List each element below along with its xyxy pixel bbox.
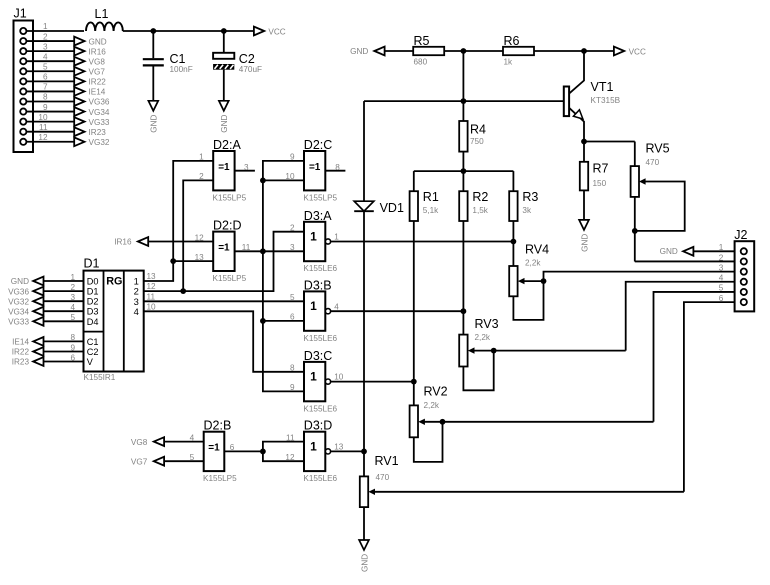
svg-text:=1: =1	[218, 162, 230, 173]
svg-text:VG36: VG36	[89, 98, 110, 107]
node dot R4 bottom	[461, 168, 467, 174]
svg-text:VG7: VG7	[89, 67, 106, 76]
connector J1 pin 1 circle	[20, 28, 26, 34]
wire J1 pin 7 to net IE14	[26, 90, 74, 92]
svg-text:RV1: RV1	[375, 454, 399, 468]
svg-text:J1: J1	[14, 7, 27, 21]
svg-text:VT1: VT1	[591, 80, 614, 94]
wire D3:B out4 to R2	[331, 310, 464, 312]
potentiometer RV1	[363, 451, 365, 476]
wire J1 pin 12 to net VG32	[26, 141, 74, 143]
svg-text:750: 750	[470, 137, 484, 146]
wire J2 pin3 to RV4 wiper	[544, 272, 735, 281]
connector J2 pin 1 circle	[741, 248, 747, 254]
connector J2 pin 3 circle	[741, 269, 747, 275]
ground below C2	[219, 101, 229, 111]
svg-text:2: 2	[70, 283, 75, 292]
wire D2:C out8 stub	[325, 170, 345, 172]
svg-text:VCC: VCC	[268, 27, 285, 36]
svg-text:K155IR1: K155IR1	[84, 373, 116, 382]
wire J1 pin 9 to net VG34	[26, 111, 74, 113]
capacitor C1	[152, 31, 154, 58]
svg-text:R1: R1	[423, 190, 439, 204]
svg-text:13: 13	[195, 253, 205, 262]
resistor R1	[413, 171, 415, 191]
svg-text:VG33: VG33	[89, 118, 110, 127]
resistor R2	[462, 171, 464, 191]
wire J1 pin 10 to net VG33	[26, 121, 74, 123]
svg-text:4: 4	[134, 306, 139, 317]
svg-text:2: 2	[199, 172, 204, 181]
svg-text:1: 1	[310, 299, 317, 313]
transistor VT1	[564, 87, 569, 117]
svg-text:6: 6	[290, 313, 295, 322]
svg-text:100nF: 100nF	[170, 65, 193, 74]
potentiometer RV3	[459, 335, 467, 367]
svg-text:=1: =1	[309, 162, 321, 173]
svg-text:VG32: VG32	[89, 138, 110, 147]
svg-text:IR16: IR16	[114, 238, 132, 247]
node dot RV4 wiper	[541, 278, 547, 284]
wire J1 pin 5 to net VG7	[26, 70, 74, 72]
node dot R2 bottom D3:B out	[461, 308, 467, 314]
wire J2 pin6 to RV1 wiper	[684, 302, 735, 492]
wire RV5 bottom to J2 pin2	[635, 260, 735, 262]
svg-text:K155LE6: K155LE6	[303, 474, 337, 483]
svg-text:R5: R5	[414, 34, 430, 48]
svg-text:GND: GND	[580, 234, 589, 252]
svg-text:8: 8	[43, 93, 48, 102]
wire J1 pin 11 to net IR23	[26, 131, 74, 133]
node dot at C1 top	[150, 28, 156, 34]
node dot bus D2:D out	[260, 248, 266, 254]
svg-text:RV3: RV3	[475, 317, 499, 331]
wire VT1 base line	[364, 100, 564, 102]
svg-text:D1: D1	[84, 256, 100, 270]
connector J1 pin 3 circle	[20, 48, 26, 54]
svg-text:D2: D2	[87, 297, 99, 307]
svg-text:=1: =1	[218, 242, 230, 253]
svg-text:R4: R4	[470, 122, 486, 136]
svg-text:470: 470	[376, 473, 390, 482]
svg-text:L1: L1	[95, 7, 109, 21]
svg-text:D3:D: D3:D	[304, 419, 332, 433]
svg-text:D3:A: D3:A	[304, 209, 332, 223]
svg-text:10: 10	[334, 373, 344, 382]
wire J1 pin1 to L1	[26, 30, 84, 32]
connector J2 outline	[735, 241, 755, 311]
connector J1 pin 10 circle	[20, 119, 26, 125]
svg-text:R6: R6	[504, 34, 520, 48]
svg-text:R3: R3	[522, 190, 538, 204]
svg-text:5: 5	[43, 62, 48, 71]
node dot R5-R6 junction	[461, 48, 467, 54]
svg-text:3k: 3k	[522, 206, 532, 215]
wire J1 pin 4 to net VG8	[26, 60, 74, 62]
svg-text:GND: GND	[220, 115, 229, 133]
svg-text:4: 4	[70, 303, 75, 312]
wire J1 pin 8 to net VG36	[26, 100, 74, 102]
nor gate D3:B K155LE6	[304, 291, 325, 330]
svg-text:R7: R7	[593, 161, 609, 175]
svg-text:10: 10	[285, 172, 295, 181]
svg-text:C2: C2	[239, 52, 255, 66]
svg-text:1: 1	[310, 229, 317, 243]
wire D1 out13 to D2:A.1 / D2:D.13	[144, 161, 214, 281]
nor gate D3:A K155LE6	[304, 222, 325, 261]
resistor R3	[512, 171, 514, 191]
svg-text:K155LP5: K155LP5	[213, 193, 247, 202]
svg-text:RV2: RV2	[424, 385, 448, 399]
wire D1 out10 to D3:C.8	[144, 311, 304, 372]
svg-text:D3:C: D3:C	[304, 349, 332, 363]
potentiometer RV5	[584, 141, 635, 143]
svg-text:3: 3	[290, 243, 295, 252]
node dot VT1 collector at VCC	[581, 48, 587, 54]
svg-text:1: 1	[199, 153, 204, 162]
svg-text:3: 3	[43, 42, 48, 51]
svg-text:D3:B: D3:B	[304, 278, 332, 292]
connector J1 pin 8 circle	[20, 98, 26, 104]
wire R1-R2-R3 top rail	[414, 170, 514, 172]
svg-text:VG7: VG7	[131, 457, 148, 466]
wire net D2:D out vertical bus	[263, 161, 304, 392]
register D1 K155IR1 outline	[84, 271, 144, 372]
svg-text:IR23: IR23	[89, 128, 107, 137]
svg-text:7: 7	[43, 83, 48, 92]
svg-text:K155LP5: K155LP5	[213, 274, 247, 283]
svg-text:D2:C: D2:C	[304, 138, 332, 152]
xor gate D2:B K155LP5	[204, 432, 225, 471]
connector J1 pin 2 circle	[20, 38, 26, 44]
connector J1 pin 7 circle	[20, 88, 26, 94]
svg-text:6: 6	[43, 73, 48, 82]
svg-text:11: 11	[242, 243, 251, 252]
svg-text:5: 5	[290, 293, 295, 302]
svg-text:1: 1	[334, 233, 339, 242]
svg-text:VG8: VG8	[89, 57, 106, 66]
wire D2:A out3 stub	[235, 170, 255, 172]
resistor R4	[459, 121, 467, 152]
connector J1 pin 6 circle	[20, 78, 26, 84]
wire D3:D out13 to VD1/RV1 node	[331, 450, 364, 452]
svg-text:J2: J2	[734, 228, 747, 242]
node dot base-R4 junction	[461, 98, 467, 104]
svg-text:10: 10	[38, 113, 48, 122]
svg-text:9: 9	[290, 153, 295, 162]
svg-text:D4: D4	[87, 317, 99, 327]
node dot bus D3:B.6	[260, 318, 266, 324]
svg-text:VG34: VG34	[89, 108, 110, 117]
nor gate D3:D K155LE6	[304, 432, 325, 471]
svg-text:13: 13	[334, 443, 344, 452]
ground below RV1	[359, 540, 369, 550]
svg-text:1: 1	[43, 22, 48, 31]
svg-text:9: 9	[290, 383, 295, 392]
svg-text:5,1k: 5,1k	[423, 206, 439, 215]
svg-text:VCC: VCC	[629, 47, 646, 56]
wire D2:D out to D3:A.3	[235, 250, 304, 252]
capacitor C2	[223, 31, 225, 53]
power arrow VCC top-left	[254, 27, 264, 36]
svg-text:11: 11	[39, 123, 48, 132]
connector J1 pin 12 circle	[20, 139, 26, 145]
connector J2 pin 6 circle	[741, 299, 747, 305]
connector J1 pin 11 circle	[20, 129, 26, 135]
node dot R1 bottom D3:C out	[411, 379, 417, 385]
svg-text:IR22: IR22	[12, 348, 30, 357]
svg-text:GND: GND	[11, 277, 29, 286]
svg-text:K155LE6: K155LE6	[303, 334, 337, 343]
svg-text:6: 6	[230, 443, 235, 452]
svg-text:1: 1	[310, 370, 317, 384]
svg-text:11: 11	[286, 433, 295, 442]
connector J2 pin 5 circle	[741, 289, 747, 295]
diode VD1	[363, 101, 365, 201]
svg-text:3: 3	[244, 163, 249, 172]
svg-text:D2:A: D2:A	[213, 138, 241, 152]
svg-text:C1: C1	[170, 52, 186, 66]
potentiometer RV4	[509, 266, 517, 296]
svg-text:VG8: VG8	[131, 438, 148, 447]
node dot at C2 top	[221, 28, 227, 34]
node dot D3:D out at RV1 top	[361, 449, 367, 455]
wire J2 pin4 to RV3 wiper	[626, 282, 735, 351]
xor gate D2:C K155LP5	[304, 151, 325, 190]
wire D2:C pin10 stub	[263, 179, 304, 181]
node dot RV3 wiper	[491, 348, 497, 354]
svg-text:150: 150	[593, 179, 607, 188]
wire J1 pin 6 to net IR22	[26, 80, 74, 82]
node dot RV5 bottom-wiper	[632, 228, 638, 234]
connector J2 pin 2 circle	[741, 258, 747, 264]
svg-text:470uF: 470uF	[239, 65, 262, 74]
svg-text:K155LP5: K155LP5	[303, 193, 337, 202]
connector J1 pin 9 circle	[20, 108, 26, 114]
svg-text:IR16: IR16	[89, 47, 107, 56]
ground below R7	[579, 220, 589, 230]
svg-text:=1: =1	[208, 443, 220, 454]
svg-text:1,5k: 1,5k	[472, 206, 488, 215]
svg-text:GND: GND	[89, 37, 107, 46]
node dot VT1 emitter junction	[581, 139, 587, 145]
wire R5R6 node down to R4	[462, 51, 464, 121]
svg-text:12: 12	[38, 133, 48, 142]
svg-text:VG33: VG33	[8, 318, 29, 327]
svg-text:8: 8	[335, 163, 340, 172]
nor gate D3:C K155LE6	[304, 362, 325, 401]
wire J2 pin5 to RV2 wiper	[654, 292, 735, 422]
svg-text:K155LE6: K155LE6	[303, 264, 337, 273]
svg-text:VG34: VG34	[8, 307, 29, 316]
svg-text:RV5: RV5	[646, 142, 670, 156]
svg-text:3: 3	[70, 293, 75, 302]
svg-text:K155LE6: K155LE6	[303, 404, 337, 413]
svg-text:1: 1	[310, 439, 317, 453]
connector J1 pin 4 circle	[20, 58, 26, 64]
connector J2 pin 4 circle	[741, 279, 747, 285]
potentiometer RV2	[410, 405, 418, 437]
wire J1 pin 2 to net GND	[26, 40, 74, 42]
svg-text:4: 4	[334, 302, 339, 311]
svg-text:12: 12	[285, 453, 295, 462]
svg-text:D3: D3	[87, 307, 99, 317]
wire D1 out11 to D3:B.5	[144, 300, 304, 302]
svg-text:IR22: IR22	[89, 78, 107, 87]
svg-text:9: 9	[70, 343, 75, 352]
svg-text:11: 11	[147, 292, 156, 301]
svg-text:2,2k: 2,2k	[525, 258, 541, 267]
svg-text:GND: GND	[360, 554, 369, 572]
wire D2:B out6 to D3:D inputs	[224, 450, 263, 452]
wire D1 out12 to D2:A.2 / D3:A.2	[144, 232, 304, 291]
node dot bus D2:C.10	[260, 178, 266, 184]
node dot R3 bottom D3:A out	[511, 239, 517, 245]
wire D3:C out10 to R1	[331, 381, 414, 383]
svg-text:10: 10	[147, 302, 157, 311]
resistor R7	[583, 142, 585, 162]
svg-text:RV4: RV4	[525, 242, 549, 256]
svg-text:IR23: IR23	[12, 358, 30, 367]
svg-text:2,2k: 2,2k	[475, 333, 491, 342]
svg-text:4: 4	[43, 52, 48, 61]
svg-text:470: 470	[646, 158, 660, 167]
wire L1 to VCC arrow	[123, 30, 254, 32]
svg-text:GND: GND	[660, 247, 678, 256]
svg-text:1: 1	[70, 273, 75, 282]
svg-text:C1: C1	[87, 337, 99, 347]
svg-text:12: 12	[195, 233, 205, 242]
xor gate D2:A K155LP5	[213, 151, 234, 190]
svg-text:D0: D0	[87, 277, 99, 287]
inductor L1	[86, 22, 123, 31]
wire J1 pin 3 to net IR16	[26, 50, 74, 52]
svg-text:GND: GND	[350, 47, 368, 56]
svg-text:RG: RG	[106, 276, 122, 288]
svg-text:5: 5	[70, 313, 75, 322]
svg-text:K155LP5: K155LP5	[203, 474, 237, 483]
svg-text:D2:D: D2:D	[213, 219, 241, 233]
svg-text:9: 9	[43, 103, 48, 112]
svg-text:6: 6	[70, 353, 75, 362]
connector J1 outline	[14, 21, 34, 153]
svg-text:KT315B: KT315B	[591, 96, 621, 105]
xor gate D2:D K155LP5	[213, 232, 234, 271]
svg-text:2: 2	[290, 224, 295, 233]
svg-text:VG32: VG32	[8, 297, 29, 306]
node dot RV2 wiper	[440, 419, 446, 425]
svg-text:V: V	[87, 357, 94, 367]
svg-text:8: 8	[70, 333, 75, 342]
resistor R6	[463, 50, 503, 52]
svg-text:D1: D1	[87, 287, 99, 297]
svg-text:VG36: VG36	[8, 287, 29, 296]
power arrow VCC top-right	[584, 50, 614, 52]
ground below C1	[148, 101, 158, 111]
svg-text:12: 12	[147, 282, 157, 291]
svg-text:2,2k: 2,2k	[424, 401, 440, 410]
svg-text:1k: 1k	[504, 57, 514, 66]
resistor R5	[385, 50, 414, 52]
svg-text:GND: GND	[150, 115, 159, 133]
svg-text:R2: R2	[472, 190, 488, 204]
svg-text:IE14: IE14	[12, 338, 29, 347]
connector J1 pin 5 circle	[20, 68, 26, 74]
svg-text:13: 13	[147, 272, 157, 281]
svg-text:2: 2	[43, 32, 48, 41]
svg-text:VD1: VD1	[380, 201, 404, 215]
wire D3:B pin6 stub	[263, 320, 304, 322]
svg-text:C2: C2	[87, 347, 99, 357]
svg-text:680: 680	[414, 57, 428, 66]
svg-text:IE14: IE14	[89, 88, 106, 97]
svg-text:8: 8	[290, 364, 295, 373]
svg-text:D2:B: D2:B	[204, 419, 232, 433]
wire D3:A out1 to R3	[331, 241, 514, 243]
